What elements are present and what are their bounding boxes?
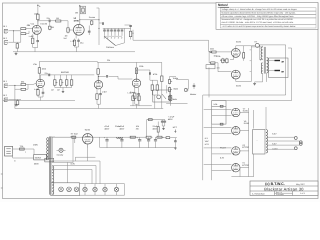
wire tone to PI (133, 30, 209, 40)
svg-text:8R: 8R (281, 70, 284, 73)
svg-text:Trem: Trem (130, 91, 135, 94)
lamp box (52, 137, 73, 162)
label R6 (47, 17, 60, 20)
heater row rails (80, 184, 125, 196)
HT feed EF86 (79, 5, 81, 25)
ground sym ch2 (15, 101, 18, 107)
svg-text:EF86: EF86 (74, 19, 80, 22)
svg-text:HTR: HTR (205, 143, 210, 146)
ground ch1 input (16, 50, 18, 52)
screen feed (147, 119, 165, 138)
heater circle 4 (114, 184, 118, 196)
transformer T2 primary (261, 47, 263, 74)
cap C35 screen (161, 120, 164, 126)
label V1a (3, 13, 48, 41)
B+ rail (55, 136, 145, 138)
pilot lamp (59, 187, 64, 192)
resistor R20 anode V2a (38, 62, 40, 80)
ground bus ch1 (13, 52, 135, 55)
heater circle 2 (93, 184, 97, 196)
svg-text:1M: 1M (65, 35, 68, 38)
wire V3a grid (93, 84, 95, 86)
svg-text:circuit / 63/630. No tube - no: circuit / 63/630. No tube - note 400 to … (222, 21, 294, 24)
svg-text:Bass: Bass (174, 88, 178, 91)
svg-text:Standby: Standby (57, 154, 64, 157)
label BR PWR (51, 71, 70, 92)
node grid stopper (210, 51, 212, 53)
svg-text:A. Richardson: A. Richardson (252, 192, 265, 195)
wire OT center tap (260, 45, 263, 82)
tube V3a (94, 81, 102, 89)
B+ rail top (259, 44, 286, 46)
svg-text:230V: 230V (34, 162, 39, 165)
label fb (214, 103, 219, 106)
T1 top connector (45, 158, 54, 162)
label 470k (153, 73, 157, 76)
filter cap C32 (136, 125, 142, 148)
trem ground (130, 102, 152, 106)
ground bus ch2 lower (15, 104, 188, 109)
label cathode EF86 (71, 40, 84, 45)
heater bus B (211, 124, 213, 180)
label V2a (3, 63, 48, 97)
cap C22 master (193, 83, 196, 89)
label R1 (27, 24, 31, 27)
svg-text:4R: 4R (281, 60, 284, 63)
cap C9 cut (117, 28, 120, 35)
svg-text:6.3V: 6.3V (220, 157, 225, 160)
resistor R1 68k (21, 28, 33, 30)
pot VR6 mids (168, 95, 176, 101)
svg-text:22n: 22n (45, 72, 48, 75)
svg-text:Voltage clamp is +/- taken bef: Voltage clamp is +/- taken before B+ cha… (222, 8, 298, 11)
filter cap C31 (119, 125, 125, 148)
labels 6.3V taps (272, 133, 278, 151)
pot VR5 bass (168, 87, 178, 93)
svg-text:EL84: EL84 (236, 84, 242, 87)
heater tube V2h (232, 127, 240, 135)
svg-text:2: 2 (111, 37, 112, 40)
pot VR1 volume (66, 21, 71, 34)
svg-text:240V: 240V (33, 143, 38, 146)
svg-text:MAINS: MAINS (35, 157, 42, 160)
wire grid ch2 (26, 83, 36, 84)
resistor R41 bias feed (211, 62, 232, 72)
wire switch to PT (46, 155, 48, 157)
svg-text:1M: 1M (51, 89, 54, 92)
cathode V4V5 (230, 57, 234, 78)
resistor R26 anode (97, 59, 110, 80)
label 220k pair (216, 55, 220, 58)
tap loops (294, 137, 302, 150)
HT feed arrow ch1 (37, 4, 41, 9)
svg-text:450V: 450V (105, 127, 110, 130)
tube V1a (32, 25, 41, 34)
svg-text:Measured with LME at - designe: Measured with LME at - designed over LME… (222, 18, 294, 21)
HT rail ch2b (97, 61, 161, 63)
HT rail ch2 (39, 61, 97, 64)
IEC inlet (5, 147, 13, 157)
input jack J3 (4, 84, 8, 88)
resistor R21 (21, 81, 26, 86)
svg-text:Cut/tone: Cut/tone (106, 46, 115, 49)
mains switch box (34, 155, 47, 160)
resistor R43 220k (226, 58, 228, 64)
tube V3b (132, 79, 140, 87)
heater circle 3 (103, 184, 107, 196)
wire GZ34 cathode drop (75, 144, 95, 161)
svg-text:Mustard capacitors disconnecte: Mustard capacitors disconnected from slo… (222, 11, 297, 14)
wire V3b plate out (136, 69, 137, 79)
svg-text:6.3V: 6.3V (272, 143, 277, 146)
svg-text:L-4k7: L-4k7 (102, 91, 108, 94)
svg-text:HT fuse: HT fuse (71, 132, 79, 135)
transformer T1 core (50, 137, 51, 195)
cap C3 screen (88, 26, 91, 36)
svg-text:450V: 450V (120, 127, 125, 130)
rotary switch SW1 wiper (104, 36, 122, 45)
heater taps out (268, 137, 300, 149)
cathode cap C1 (33, 34, 39, 47)
label cut switch (104, 37, 123, 49)
ground bus ch2 upper (3, 100, 75, 102)
wire HT secondary (48, 136, 55, 138)
svg-text:220k: 220k (216, 55, 220, 58)
svg-text:EL-84: EL-84 (220, 59, 226, 62)
resistor R10 tone (125, 25, 132, 40)
node jack (13, 30, 14, 31)
label 240V mains (33, 143, 38, 146)
resistor R7 grid (49, 22, 55, 30)
transformer T1 primary (47, 138, 49, 161)
svg-text:100k: 100k (42, 68, 46, 71)
feedback box (212, 101, 226, 126)
pot VR2 (54, 75, 58, 88)
svg-text:ECC83: ECC83 (41, 23, 48, 26)
filter cap C34 (154, 137, 157, 148)
speaker jack 8R (275, 70, 285, 73)
resistor R8 anode EF86 box (76, 6, 86, 14)
wire EF86 out down (97, 8, 100, 45)
notes box (216, 3, 318, 30)
svg-text:GZ34: GZ34 (85, 128, 91, 131)
label 6.3V pt (71, 162, 76, 165)
svg-text:100k: 100k (34, 13, 38, 16)
resistor R40 grid1 (212, 51, 232, 53)
cathode resistor R4 (32, 34, 34, 47)
resistor R53 vert (157, 122, 159, 138)
cathode V3b (134, 87, 140, 108)
cap C36 screen (162, 120, 166, 130)
pot VR3 (60, 75, 64, 88)
svg-text:3.15V: 3.15V (272, 148, 278, 151)
svg-text:EL84: EL84 (236, 41, 242, 44)
wire jack3 (9, 84, 21, 86)
heater tube labels (242, 107, 250, 167)
heater tube V1h (232, 108, 240, 116)
wire plate ch1 (38, 21, 49, 25)
screen stoppers (243, 46, 245, 61)
wire pot to EF86 grid (71, 29, 74, 31)
svg-text:All can sizes + version tags L: All can sizes + version tags LHT/RHL - P… (222, 15, 295, 18)
svg-text:Schematic: Schematic (276, 193, 284, 196)
label EF86 (74, 17, 80, 23)
cathode EF86 (73, 35, 80, 52)
filter cap C33 (147, 137, 150, 148)
svg-text:2: 2 (118, 37, 119, 40)
heater right vert (240, 108, 249, 177)
resistor R23 grid leak (15, 99, 19, 108)
wire drive lower (209, 51, 211, 62)
label 240V pt (70, 136, 75, 139)
node plate ch1 (37, 20, 38, 21)
svg-text:470k: 470k (153, 73, 157, 76)
capacitor C2 coupling (49, 20, 56, 23)
label grid1 (210, 47, 220, 69)
svg-text:2: 2 (121, 37, 122, 40)
heater loop wire 1 (52, 161, 100, 184)
resistor R50 dropper (129, 136, 137, 138)
wire sec to jacks (267, 61, 275, 71)
svg-text:68k: 68k (21, 81, 24, 84)
svg-text:- -: - - (256, 141, 258, 143)
right cluster ch2 wires (137, 70, 151, 80)
resistor R27 anode V3b (135, 62, 143, 79)
input jack J4 (4, 98, 8, 102)
svg-text:2: 2 (104, 37, 105, 40)
svg-text:22n: 22n (47, 17, 50, 20)
label screen node (168, 116, 175, 121)
title block (250, 181, 318, 196)
label VR1 (64, 35, 68, 41)
wire mains live (13, 148, 20, 150)
wire cathode to gnd (34, 48, 36, 52)
label 230V (34, 162, 39, 165)
heater loop wire 2 (52, 166, 96, 184)
PT heater winding (266, 107, 267, 153)
wire plates join (236, 46, 252, 82)
resistor R51 dropper (145, 136, 153, 138)
label EL84 V5 (236, 84, 242, 87)
heater circle 1 (83, 184, 87, 196)
wire mains to PT (13, 149, 34, 158)
svg-text:1M: 1M (57, 89, 60, 92)
cap C37 HT2 (174, 141, 177, 150)
svg-text:6.3V: 6.3V (272, 133, 277, 136)
PT heater box (253, 110, 265, 177)
wire EF86 plate right (79, 19, 99, 24)
svg-text:VAC: VAC (205, 140, 210, 143)
svg-text:100k: 100k (139, 65, 143, 68)
svg-text:1M: 1M (51, 26, 54, 29)
wire OT top (251, 46, 262, 47)
cap C5 cut (103, 28, 106, 35)
label cathode V3b (128, 91, 134, 94)
svg-text:2W: 2W (136, 127, 139, 130)
lamp X2 (67, 187, 72, 192)
relay box (153, 90, 171, 102)
svg-text:Master: Master (190, 93, 196, 96)
label cathode V2a (34, 88, 40, 91)
svg-text:EL84: EL84 (243, 110, 249, 113)
T1 taps (52, 167, 54, 193)
cap C8 cut (114, 28, 117, 35)
connector box PI (206, 65, 215, 69)
svg-text:22k: 22k (107, 59, 110, 62)
pot VR7 master (185, 88, 197, 96)
label cathode ch1 (29, 35, 35, 38)
cap C20 coupling (49, 74, 50, 77)
ground rail psu (88, 144, 176, 148)
suppressor marks (250, 50, 252, 72)
B+ return box inner (212, 48, 292, 101)
cap C21 coupling (98, 75, 132, 81)
svg-text:6.3V: 6.3V (71, 162, 76, 165)
pilot box (51, 183, 80, 196)
lamp X3 (74, 187, 79, 192)
svg-text:BR/PWR: BR/PWR (61, 71, 70, 74)
input jack J1 (4, 29, 8, 33)
resistor R22 (15, 84, 28, 90)
svg-text:Mids: Mids (173, 98, 177, 101)
transformer T1 secondary (52, 166, 54, 195)
choke L1 (115, 125, 123, 138)
heater tube V3h (232, 147, 240, 155)
fuse F1 (20, 148, 35, 150)
resistor R25 (70, 75, 72, 88)
wire drive down (209, 40, 211, 51)
resistor R24 (66, 75, 68, 88)
heater branches (204, 110, 232, 171)
wire jack link (9, 31, 21, 42)
impedance selector box (269, 58, 288, 78)
HT fuse (71, 132, 79, 138)
filter cap C30 (104, 125, 110, 148)
cap C6 cut (107, 28, 110, 35)
wire jack1 to grid (9, 30, 21, 32)
cap C10 cut (121, 28, 124, 35)
resistor R28 (150, 80, 157, 95)
HT2 arrow (173, 126, 178, 132)
heater loop wire 3 (52, 170, 92, 184)
wire HT2 run (158, 137, 177, 141)
svg-text:+ & D refers to LH and RH powe: + & D refers to LH and RH power caps use… (222, 25, 297, 28)
resistor R52 dropper (153, 125, 164, 138)
input jack J2 (4, 41, 8, 45)
tube V4 EL84 upper (231, 49, 240, 58)
label pilot 63 (220, 147, 227, 160)
cap C7 cut (110, 28, 113, 35)
svg-text:L-4k7: L-4k7 (34, 88, 40, 91)
resistor R30 (161, 62, 163, 108)
svg-text:25u: 25u (80, 42, 83, 45)
B+ return box outer (203, 45, 286, 95)
svg-text:L-2k: L-2k (71, 40, 75, 43)
label EL84 V4 (236, 41, 242, 44)
svg-text:Grid: Grid (210, 47, 214, 50)
svg-text:2: 2 (114, 37, 115, 40)
transformer T2 secondary (267, 58, 269, 74)
rectifier V8 GZ34 (83, 128, 93, 144)
cap C4 tone in (99, 22, 104, 25)
node tone out (132, 33, 133, 34)
trem caps (130, 91, 140, 102)
speaker jack 4R (275, 60, 285, 63)
transformer T2 core (264, 47, 265, 74)
OT ground (253, 73, 266, 85)
label fuse (14, 145, 26, 163)
gnd ch2 mids (55, 88, 72, 93)
wire jack3-4 link (9, 85, 21, 100)
wire standby drops (75, 137, 100, 148)
wire heater bottom (231, 168, 253, 177)
cathode V3a (96, 89, 102, 109)
neon lamp NE1 (57, 148, 68, 183)
heater tube V4h (232, 164, 240, 172)
svg-text:Notes!: Notes! (218, 3, 228, 7)
resistor R42 220k (220, 58, 226, 64)
label cathode V3a (102, 91, 108, 94)
label 6.3VAC (205, 137, 210, 146)
svg-text:Screen: Screen (89, 16, 95, 19)
pot VR4 treble (168, 77, 179, 84)
tube V2a ch2 (36, 79, 44, 87)
heater bus A (202, 95, 204, 180)
B+ node circle (251, 41, 259, 48)
svg-text:L-4k7: L-4k7 (29, 35, 35, 38)
svg-text:PILOT: PILOT (220, 147, 227, 150)
cathode V2a (37, 88, 45, 101)
resistor R9 screen (89, 16, 95, 26)
resistor R6 1M (56, 20, 66, 22)
resistor R5 anode ch1 (37, 9, 39, 25)
svg-text:1M: 1M (56, 17, 59, 20)
tube V2 EF86 (73, 24, 84, 35)
trem resistor right (169, 94, 171, 106)
wire master link (170, 80, 189, 95)
resistor R2 68k (14, 31, 30, 35)
wire PI right (208, 67, 210, 97)
resistor R29 (152, 80, 158, 108)
heater circle 5 (0, 0, 1, 1)
svg-text:Blackstar Artisan 30: Blackstar Artisan 30 (264, 186, 304, 191)
svg-text:450V: 450V (168, 118, 173, 121)
wire tone box (167, 77, 176, 94)
resistor R3 1M grid leak (16, 35, 21, 50)
svg-text:2: 2 (107, 37, 108, 40)
wire tone out (116, 28, 125, 45)
tube V5 EL84 lower (231, 70, 240, 79)
wire V2a plate right (40, 75, 94, 79)
wire tone rail (103, 27, 131, 29)
svg-text:L: L (25, 151, 26, 154)
svg-text:1 of 1: 1 of 1 (300, 192, 306, 195)
